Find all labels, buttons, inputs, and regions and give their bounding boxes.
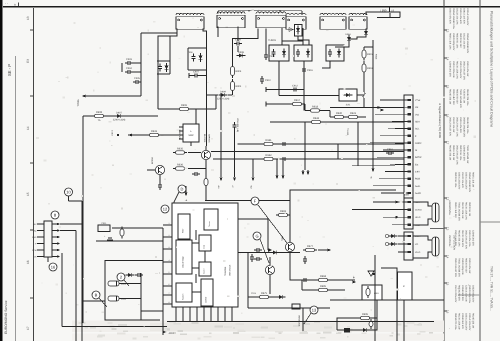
- vertical yoke coil: [432, 237, 439, 256]
- wire lower rail 107: [330, 107, 404, 109]
- wire to pin 3: [395, 113, 408, 115]
- capacitor C903: [125, 58, 133, 65]
- svg-text:16: 16: [446, 310, 450, 314]
- wire: [307, 170, 309, 173]
- svg-text:R9145 33k 1W: R9145 33k 1W: [472, 313, 475, 329]
- svg-text:C9301 220u 63V: C9301 220u 63V: [454, 285, 457, 303]
- arrow down: [275, 175, 278, 179]
- capacitor C976: [254, 257, 262, 261]
- svg-text:E3: E3: [26, 59, 30, 63]
- wire ladder 117: [330, 116, 366, 118]
- wire: [205, 169, 207, 179]
- test point arrow TP905: [82, 94, 86, 97]
- svg-text:C2014 100n 1W: C2014 100n 1W: [465, 285, 468, 302]
- wire 280 rail: [290, 279, 355, 281]
- transistor T902 SIPMOS: [201, 150, 210, 159]
- warning triangle: [368, 271, 374, 276]
- svg-text:GND2: GND2: [415, 142, 422, 145]
- polarized cap C971: [108, 281, 127, 286]
- wire: [304, 104, 306, 111]
- svg-text:SCL: SCL: [415, 128, 420, 131]
- svg-text:17: 17: [26, 326, 30, 330]
- wire: [158, 108, 177, 110]
- junction: [389, 17, 391, 19]
- resistor R903: [231, 64, 242, 78]
- wire to pin 5: [395, 128, 408, 130]
- wire to SMPS ic: [128, 134, 183, 136]
- svg-text:13: 13: [446, 227, 450, 231]
- svg-text:Planarabbildungen und Schaltpl: Planarabbildungen und Schaltpläne / Layo…: [490, 11, 494, 127]
- ic U980 inner box generator: [176, 283, 192, 302]
- connector pad H2: [408, 208, 411, 210]
- svg-text:C909: C909: [269, 55, 275, 58]
- wire: [238, 252, 248, 254]
- svg-text:R903: R903: [236, 70, 242, 73]
- svg-text:C910: C910: [265, 79, 271, 82]
- wire: [133, 71, 141, 73]
- svg-text:16: 16: [26, 260, 30, 264]
- svg-text:T9021 BC548 25V: T9021 BC548 25V: [458, 202, 461, 221]
- svg-text:Outp: Outp: [203, 245, 206, 249]
- junction: [206, 108, 208, 110]
- callout circle 12: [161, 205, 169, 213]
- wire: [109, 240, 111, 241]
- svg-text:C2014 100n 63V: C2014 100n 63V: [468, 313, 471, 331]
- capacitor C904: [125, 67, 133, 74]
- svg-text:DEFLECTION: DEFLECTION: [453, 235, 456, 250]
- junction: [357, 121, 359, 123]
- ic internal wire: [204, 251, 206, 262]
- svg-text:TP905: TP905: [77, 99, 80, 107]
- svg-text:D9012 BA157 63V: D9012 BA157 63V: [449, 117, 452, 136]
- marker circle D951: [385, 234, 388, 237]
- svg-text:AudR: AudR: [415, 192, 421, 195]
- wire to pin 14: [395, 192, 408, 194]
- svg-text:T9021 BC548 1W: T9021 BC548 1W: [466, 145, 469, 164]
- left ruler tick: [30, 229, 34, 231]
- svg-text:C9220 680p 1W: C9220 680p 1W: [461, 258, 464, 275]
- connector pad V1: [408, 235, 411, 237]
- svg-text:R904: R904: [236, 85, 242, 88]
- marker circle D952: [385, 242, 388, 245]
- wire: [374, 255, 376, 341]
- wire ladder 104: [266, 103, 305, 105]
- arrow: [57, 242, 60, 245]
- wire vertical bus B: [81, 201, 83, 341]
- arrow: [395, 200, 399, 203]
- wire: [289, 215, 291, 242]
- resistor R918: [308, 106, 322, 113]
- capacitor C906: [191, 54, 195, 62]
- svg-text:D9012 BA157 25V: D9012 BA157 25V: [463, 61, 466, 80]
- wire to pin 9: [395, 156, 408, 158]
- wire: [169, 36, 171, 74]
- wire: [383, 216, 408, 218]
- resistor R931: [147, 130, 161, 137]
- capacitor C905: [133, 77, 141, 84]
- ic ground stub: [196, 307, 198, 321]
- svg-text:R9234 270 25V: R9234 270 25V: [458, 285, 461, 301]
- svg-text:15: 15: [26, 192, 30, 196]
- svg-text:D907: D907: [116, 111, 122, 114]
- wire 12V rail: [83, 115, 158, 117]
- wire to pin 4: [395, 120, 408, 122]
- right margin divider 2: [458, 294, 480, 296]
- ic pin 3 stub: [163, 248, 172, 250]
- diode D972: [271, 251, 280, 255]
- wire: [282, 159, 284, 176]
- ic ground stub: [182, 307, 184, 321]
- svg-text:C9122 10n 25V: C9122 10n 25V: [463, 33, 466, 49]
- connector pad pin 3: [408, 113, 411, 115]
- svg-text:16: 16: [51, 264, 56, 269]
- wire: [357, 94, 364, 96]
- wire: [322, 61, 330, 68]
- svg-text:D9012 BA157 10%: D9012 BA157 10%: [456, 117, 459, 137]
- svg-text:C2014 100n 63V: C2014 100n 63V: [466, 8, 469, 26]
- wire coil4 left drop: [281, 28, 283, 45]
- ic U980 inner box guard: [199, 262, 211, 276]
- svg-text:C9015 47u 63V: C9015 47u 63V: [459, 8, 462, 24]
- transformer coil T901b: [217, 12, 245, 28]
- capacitor C907: [192, 71, 200, 78]
- wire feeder bend: [388, 128, 395, 130]
- arrow down: [306, 171, 309, 175]
- ic ground stub: [224, 307, 226, 321]
- parts list block: [454, 313, 475, 331]
- wire: [119, 298, 141, 300]
- callout line F: [258, 205, 287, 243]
- bridge rectifier D921 box: [339, 89, 357, 101]
- wire to pin 8: [395, 149, 408, 151]
- diode D907: [113, 111, 126, 121]
- wire: [96, 240, 163, 242]
- wire: [141, 310, 163, 312]
- arrow: [57, 249, 60, 252]
- capacitor C910: [260, 76, 272, 84]
- svg-text:C9015 47u 25V: C9015 47u 25V: [459, 117, 462, 133]
- wire coil1 right drop to T902: [203, 29, 207, 147]
- svg-text:R9330 56 10%: R9330 56 10%: [454, 172, 457, 187]
- wire 290 rail: [302, 289, 345, 291]
- svg-text:EURO/MONO Service: EURO/MONO Service: [4, 300, 8, 334]
- pcb ground-plane dark streak: [150, 323, 335, 331]
- wire: [376, 300, 378, 330]
- transistor T981: [285, 242, 294, 251]
- svg-text:C9220 680p 63V: C9220 680p 63V: [472, 285, 475, 303]
- svg-text:BC558: BC558: [151, 157, 154, 164]
- svg-text:C2040 2n2 25V: C2040 2n2 25V: [461, 285, 464, 301]
- callout circle 13: [310, 306, 318, 314]
- resistor R920: [332, 112, 346, 119]
- junction: [109, 240, 111, 242]
- wire feeder bend: [383, 149, 395, 151]
- svg-text:R906: R906: [181, 104, 188, 107]
- svg-text:SMP: SMP: [188, 134, 194, 137]
- wire: [349, 37, 366, 39]
- capacitor C909b: [271, 49, 275, 57]
- junction: [206, 69, 208, 71]
- wire: [207, 94, 219, 96]
- ic pin stub: [179, 134, 183, 136]
- diode D952: [389, 242, 398, 246]
- junction: [278, 89, 280, 91]
- svg-text:SE - P: SE - P: [7, 64, 12, 76]
- svg-text:SDA: SDA: [415, 120, 420, 123]
- callout line 13: [304, 313, 311, 324]
- parts list block: [454, 258, 471, 277]
- connector pin stub right: [52, 223, 58, 225]
- wire: [159, 175, 161, 183]
- svg-text:R9330 56 10%: R9330 56 10%: [459, 145, 462, 160]
- wire main left vertical bus: [82, 116, 84, 323]
- ic ground stub: [203, 307, 205, 321]
- svg-text:R941: R941: [265, 139, 272, 142]
- terminal bar C907: [188, 73, 190, 78]
- svg-text:4: 4: [169, 259, 170, 262]
- svg-text:VER.ST.BLK: VER.ST.BLK: [229, 264, 232, 276]
- svg-text:C9122 10n 10%: C9122 10n 10%: [456, 8, 459, 24]
- svg-text:R916: R916: [375, 54, 378, 60]
- wire: [302, 308, 304, 331]
- ic internal wire: [192, 291, 201, 293]
- right separator line: [479, 0, 481, 341]
- right ruler line: [443, 0, 445, 341]
- zener arrow D910: [289, 28, 293, 32]
- capacitor C906a: [158, 64, 162, 72]
- junction: [345, 116, 347, 118]
- wire snubber1 drop: [278, 61, 280, 96]
- capacitor C913b: [328, 49, 332, 57]
- junction: [282, 158, 284, 160]
- junction: [162, 310, 164, 312]
- callout line D: [172, 192, 179, 206]
- connector pad pin 7: [408, 142, 411, 144]
- connector pad pin 2: [408, 106, 411, 108]
- resistor R991: [366, 286, 370, 298]
- preset P911 box: [98, 225, 110, 232]
- junction: [303, 89, 305, 91]
- wire bus 159: [213, 158, 404, 160]
- left ruler tick: [30, 29, 34, 31]
- svg-text:C9015 47u 10%: C9015 47u 10%: [468, 230, 471, 246]
- wire: [366, 12, 400, 18]
- wire: [119, 283, 141, 285]
- wire: [140, 273, 142, 320]
- wire coil2 right drop: [237, 27, 239, 42]
- wire feeder bend: [377, 156, 395, 158]
- svg-text:TA: TA: [98, 119, 101, 122]
- wire feeder bend: [380, 99, 395, 101]
- svg-text:C2040 2n2 63V: C2040 2n2 63V: [461, 313, 464, 329]
- svg-text:C9301 220u 25V: C9301 220u 25V: [465, 172, 468, 190]
- svg-text:R918: R918: [312, 106, 319, 109]
- right ruler tick: [444, 57, 447, 59]
- connector X16 outline: [44, 221, 52, 257]
- svg-text:R917: R917: [294, 99, 301, 102]
- svg-text:C9122 10n 63V: C9122 10n 63V: [461, 172, 464, 188]
- wire bracket: [187, 48, 189, 70]
- snubber box 3 outline: [326, 45, 344, 61]
- svg-text:Vst: Vst: [415, 106, 419, 109]
- svg-text:0.9V: 0.9V: [415, 171, 420, 174]
- wire tie: [188, 69, 207, 71]
- wire: [205, 146, 207, 150]
- wire feeder bend: [381, 192, 395, 194]
- svg-text:D: D: [181, 186, 184, 191]
- connector VERT outline: [404, 232, 413, 260]
- wire: [232, 52, 234, 64]
- margin tick a: [18, 3, 20, 7]
- left ruler tick: [30, 162, 34, 164]
- ic pin 4 stub: [163, 261, 172, 263]
- arrow: [377, 106, 381, 109]
- capacitor C951: [386, 148, 394, 155]
- callout line G: [260, 239, 269, 263]
- wire: [234, 130, 236, 177]
- wire: [302, 28, 304, 45]
- wire: [377, 17, 400, 19]
- svg-text:13: 13: [26, 16, 30, 20]
- svg-text:R936: R936: [177, 164, 184, 167]
- wire varistor out: [298, 36, 309, 45]
- svg-text:R9130 120k 10%: R9130 120k 10%: [465, 202, 468, 220]
- connector pad V2: [408, 243, 411, 245]
- wire to pin 6: [395, 135, 408, 137]
- wire feeder bend: [370, 142, 395, 144]
- capacitor C909: [264, 52, 276, 60]
- svg-text:TH901: TH901: [268, 39, 276, 42]
- wire: [69, 200, 83, 202]
- svg-text:BUZ90A: BUZ90A: [203, 134, 206, 143]
- svg-text:R9145 33k 10%: R9145 33k 10%: [458, 230, 461, 246]
- wire: [185, 186, 187, 193]
- right ruler tick: [444, 85, 447, 87]
- svg-text:C2040 2n2 25V: C2040 2n2 25V: [463, 145, 466, 161]
- wire TP905: [84, 95, 141, 97]
- terminal bar: [265, 87, 267, 92]
- wire bus 122: [270, 121, 404, 123]
- svg-text:R3021 4k7 25V: R3021 4k7 25V: [452, 89, 455, 105]
- svg-text:C9122 10n 1W: C9122 10n 1W: [452, 117, 455, 133]
- ic internal wire: [192, 267, 199, 269]
- wire: [191, 108, 216, 110]
- svg-text:D9012 BA157 25V: D9012 BA157 25V: [454, 258, 457, 277]
- wire feeder bend: [385, 171, 395, 173]
- svg-text:R9330 56 63V: R9330 56 63V: [465, 258, 468, 273]
- wire: [68, 196, 70, 201]
- connector pad pin 6: [408, 135, 411, 137]
- wire: [200, 75, 207, 77]
- left ruler tick: [30, 297, 34, 299]
- wire drop to bottom: [381, 268, 397, 341]
- svg-text:VG: VG: [415, 243, 418, 246]
- wire 300 rail: [330, 299, 444, 301]
- wire ladder a: [337, 317, 377, 319]
- connector pin stub right: [52, 230, 58, 232]
- svg-text:T9021 BC548 25V: T9021 BC548 25V: [458, 258, 461, 277]
- svg-text:R921: R921: [350, 112, 357, 115]
- resistor R977: [303, 245, 317, 252]
- wire: [336, 318, 338, 330]
- resistor R904: [231, 79, 242, 93]
- wire tie: [157, 60, 170, 62]
- ic internal wire: [195, 230, 197, 240]
- wire: [335, 43, 349, 47]
- resistor R936: [173, 164, 187, 171]
- ic pin stub: [179, 130, 183, 132]
- ic ground stub: [189, 307, 191, 321]
- ic ground stub: [210, 307, 212, 321]
- wire: [301, 280, 303, 290]
- wire feeder bus x163: [162, 228, 164, 335]
- svg-text:D9054 1N4148 10%: D9054 1N4148 10%: [452, 8, 455, 29]
- svg-text:8: 8: [169, 301, 170, 304]
- callout circle D: [178, 185, 186, 193]
- svg-text:GND: GND: [32, 236, 37, 239]
- svg-text:VoltRef: VoltRef: [205, 296, 208, 303]
- svg-text:R935: R935: [177, 148, 184, 151]
- svg-text:C9410 1n5 63V: C9410 1n5 63V: [463, 8, 466, 24]
- resistor R917: [290, 99, 304, 106]
- resistor R984: [316, 275, 330, 281]
- svg-text:D913: D913: [345, 33, 351, 36]
- junction: [206, 47, 208, 49]
- wire to pin 2: [395, 106, 408, 108]
- wire: [363, 61, 365, 63]
- svg-text:VDrP+: VDrP+: [415, 235, 422, 238]
- svg-text:C907: C907: [193, 71, 199, 74]
- wire VOLUME rail: [220, 93, 222, 177]
- junction: [140, 310, 142, 312]
- varistor D910 box: [295, 25, 303, 37]
- snubber box 2 outline: [294, 45, 312, 61]
- svg-text:P911: P911: [102, 222, 108, 225]
- wire: [190, 142, 192, 146]
- connector pad H1: [408, 201, 411, 203]
- junction: [257, 38, 259, 40]
- resistor R943: [309, 117, 323, 124]
- wire: [217, 11, 219, 14]
- ic U980 outer box: [172, 203, 238, 307]
- transformer coil T902a: [286, 13, 306, 29]
- ic U980 inner box vref: [201, 279, 213, 306]
- resistor R921: [346, 112, 360, 119]
- junction: [140, 81, 142, 83]
- wire: [141, 32, 177, 34]
- pcb ground-plane band 2: [72, 334, 444, 341]
- parts list block: [454, 172, 475, 193]
- parts list block: [449, 145, 470, 165]
- wire bottom bus right: [167, 321, 434, 323]
- diode D904: [165, 63, 169, 72]
- ic pin 8 stub: [163, 303, 172, 305]
- wire top bus: [218, 10, 302, 12]
- capacitor C931: [192, 172, 200, 176]
- arrow down: [184, 192, 187, 196]
- wire: [398, 235, 408, 237]
- connector pad V3: [408, 251, 411, 253]
- wire: [302, 170, 304, 173]
- svg-text:R977: R977: [307, 245, 314, 248]
- junction: [279, 10, 281, 12]
- svg-text:AudL: AudL: [415, 185, 421, 188]
- right ruler tick: [444, 29, 447, 31]
- wire: [363, 98, 365, 107]
- arrow: [352, 280, 356, 283]
- connector pad pin 11: [408, 170, 411, 172]
- svg-text:3: 3: [169, 246, 170, 249]
